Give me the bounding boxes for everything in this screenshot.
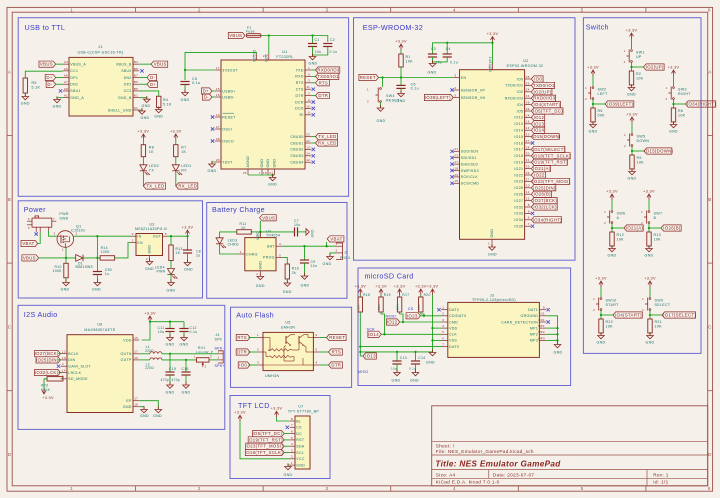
svg-text:IO23(TFT_MOSI): IO23(TFT_MOSI) xyxy=(532,179,570,184)
wire pin to label xyxy=(530,110,532,112)
svg-text:0.1u: 0.1u xyxy=(450,61,458,65)
svg-text:10K: 10K xyxy=(655,325,663,329)
global label IO4(START) xyxy=(531,102,560,108)
IC U7 ST7789 body xyxy=(295,416,310,469)
IC U5 UMH3N body xyxy=(263,332,313,370)
svg-text:USBD+: USBD+ xyxy=(222,89,235,93)
svg-text:+3.3V: +3.3V xyxy=(595,276,607,280)
svg-text:6: 6 xyxy=(708,8,711,13)
svg-text:MAX98357AETE: MAX98357AETE xyxy=(84,328,115,332)
section box TFT LCD xyxy=(230,396,330,479)
wire RTS pin to label xyxy=(311,82,315,84)
pin 17 SHD/SD2 of U2 xyxy=(453,163,459,165)
wire gate node to R10 xyxy=(65,258,67,263)
global label RESET autoflash xyxy=(327,334,347,340)
wire VBUS node to C7 xyxy=(260,231,294,233)
wire R21 to ground xyxy=(649,333,651,336)
svg-text:VCCIO: VCCIO xyxy=(252,49,256,62)
svg-text:GND: GND xyxy=(589,130,598,134)
svg-text:RTS: RTS xyxy=(319,80,329,85)
resistor R2 xyxy=(629,71,633,85)
global label IO19(TFT_RST) xyxy=(248,437,284,443)
wire pin to label xyxy=(530,161,532,163)
global label IO18(TFT_SCLK) xyxy=(245,449,284,455)
wire EN net to C6 xyxy=(400,78,402,86)
base resistor zigzag B inside U5 xyxy=(268,355,292,357)
no-connect on CBUS3 xyxy=(312,154,315,157)
svg-text:+3.3V: +3.3V xyxy=(606,189,618,193)
wire LED3 to CHRG pin xyxy=(220,244,239,254)
svg-text:IO25: IO25 xyxy=(514,186,523,190)
svg-text:microSD Card: microSD Card xyxy=(365,272,414,281)
svg-text:CARD_DETECTION: CARD_DETECTION xyxy=(501,320,538,324)
svg-text:VBUS: VBUS xyxy=(40,62,53,67)
svg-text:34: 34 xyxy=(526,94,530,98)
svg-text:TXD0/IO1: TXD0/IO1 xyxy=(317,74,339,79)
wire TEST to ground xyxy=(212,162,215,164)
svg-text:Switch: Switch xyxy=(586,23,609,32)
pin 2 CD/DAT3 of J3 xyxy=(441,315,448,317)
wire +3.3V to R19 xyxy=(380,295,382,297)
pin 6 IO34 of U2 xyxy=(525,219,531,221)
svg-text:GND: GND xyxy=(410,378,419,382)
svg-text:MP3: MP3 xyxy=(538,336,545,340)
svg-text:USB to TTL: USB to TTL xyxy=(25,23,66,32)
pin 2 DTR of U1 xyxy=(305,95,311,97)
svg-text:SHD/SD2: SHD/SD2 xyxy=(461,162,478,166)
resistor R18 pull-up xyxy=(358,297,362,312)
svg-text:IO4(START): IO4(START) xyxy=(533,102,560,107)
svg-text:GND: GND xyxy=(266,159,270,168)
resistor R9 xyxy=(630,155,634,169)
wire to C8 xyxy=(187,236,189,249)
global label IO17(SELECT) xyxy=(531,146,565,152)
svg-text:7: 7 xyxy=(528,222,530,226)
svg-text:A1: A1 xyxy=(64,94,68,98)
svg-text:2: 2 xyxy=(666,97,668,101)
capacitor C6 xyxy=(396,84,405,86)
svg-text:RX: RX xyxy=(181,168,187,172)
svg-text:CBUS0: CBUS0 xyxy=(290,135,303,139)
pin 22 CBUS1 of U1 xyxy=(305,142,311,144)
svg-text:+3.3V: +3.3V xyxy=(587,65,599,69)
svg-text:C2: C2 xyxy=(330,38,335,42)
resistor R21 xyxy=(648,319,652,333)
svg-text:50K: 50K xyxy=(598,114,606,118)
pin 16 USBD- of U1 xyxy=(215,96,221,98)
svg-text:1: 1 xyxy=(132,238,134,242)
wire GROUND MP pins to ground xyxy=(546,316,557,345)
wire R1 to EN net xyxy=(400,67,402,78)
ground below R10 xyxy=(65,279,67,282)
svg-text:13: 13 xyxy=(526,126,530,130)
svg-text:TFP09-2-128(microSD): TFP09-2-128(microSD) xyxy=(472,298,516,302)
wire pin to label xyxy=(530,155,532,157)
push button SW2 LEFT xyxy=(592,87,594,89)
svg-text:GND: GND xyxy=(140,414,149,418)
svg-text:R17: R17 xyxy=(402,293,409,297)
wire C11 drop xyxy=(169,322,171,328)
wire +3.3V to R1 xyxy=(400,50,402,54)
svg-text:IO5: IO5 xyxy=(517,109,524,113)
svg-text:SBU1: SBU1 xyxy=(70,89,80,93)
svg-text:IO34(RIGHT): IO34(RIGHT) xyxy=(533,217,562,222)
svg-text:3: 3 xyxy=(308,79,310,83)
wire C5 to ground xyxy=(184,85,186,93)
svg-text:CHRG: CHRG xyxy=(228,242,239,246)
svg-text:IO18(TFT_SCLK): IO18(TFT_SCLK) xyxy=(533,153,572,158)
no-connect on RESET pin xyxy=(211,115,214,118)
svg-text:23: 23 xyxy=(306,133,310,137)
svg-text:3: 3 xyxy=(132,232,134,236)
svg-text:6: 6 xyxy=(308,111,310,115)
svg-text:SBU2: SBU2 xyxy=(121,69,131,73)
global label TXD0/IO1 xyxy=(316,73,339,79)
wire L1 to SPK- xyxy=(162,353,218,355)
svg-text:SPK-: SPK- xyxy=(215,347,225,351)
push button SW7 B xyxy=(648,211,650,213)
junction MP2 xyxy=(556,333,558,335)
svg-text:9: 9 xyxy=(528,209,530,213)
global label IO23(TFT_MOSI) xyxy=(246,443,284,449)
svg-text:8: 8 xyxy=(543,306,545,310)
svg-text:IO12: IO12 xyxy=(534,115,545,120)
svg-text:1: 1 xyxy=(336,242,338,246)
wire VSS to ground xyxy=(433,339,442,341)
pin 5 CLK of J3 xyxy=(441,333,448,335)
wire R5 to ground xyxy=(592,122,594,125)
svg-text:GND: GND xyxy=(377,119,386,123)
svg-text:1: 1 xyxy=(257,333,259,337)
ground below R22 xyxy=(600,332,602,335)
wire C11 to ground xyxy=(169,332,171,338)
global label IO4(START) xyxy=(613,312,642,318)
svg-text:IO15(DOWN): IO15(DOWN) xyxy=(644,149,673,154)
wire EP to ground xyxy=(139,401,158,410)
wire pin to label xyxy=(530,104,532,106)
svg-text:+3.3V: +3.3V xyxy=(668,65,680,69)
resistor R13 xyxy=(169,245,173,261)
svg-text:7: 7 xyxy=(53,217,55,221)
svg-text:RESET: RESET xyxy=(329,335,345,340)
pin 3 SCL of U7 xyxy=(290,452,295,454)
svg-text:CTS: CTS xyxy=(296,87,304,91)
ground below R9 xyxy=(631,168,633,171)
global label RTS autoflash left xyxy=(236,334,250,340)
wire PROG to R16 xyxy=(282,257,287,264)
svg-text:CD/DAT3: CD/DAT3 xyxy=(449,314,466,318)
svg-text:DTR: DTR xyxy=(296,94,304,98)
no-connect on CARD_DETECTION xyxy=(547,320,550,323)
pin 3 BAT of U4 xyxy=(276,245,282,247)
svg-text:VBUS: VBUS xyxy=(229,33,242,38)
IC U6 MAX98357AETE body xyxy=(67,335,133,413)
global label IO5(TFT_DC) xyxy=(253,431,285,437)
svg-text:CBUS1: CBUS1 xyxy=(290,141,303,145)
pin 1 CHRG of U4 xyxy=(239,253,245,255)
svg-text:2: 2 xyxy=(256,272,258,276)
wire +3.3V to SW6 xyxy=(611,200,613,210)
svg-text:10u: 10u xyxy=(315,50,322,54)
capacitor C16 xyxy=(181,371,190,373)
svg-text:14: 14 xyxy=(526,113,530,117)
pin 3 CMD of J3 xyxy=(441,321,448,323)
wire junction to label xyxy=(649,227,661,229)
svg-text:R5: R5 xyxy=(32,81,37,85)
svg-text:LEFT: LEFT xyxy=(598,92,609,96)
wire decoupling rail xyxy=(360,351,432,353)
svg-text:5: 5 xyxy=(308,72,310,76)
ground below R5 xyxy=(24,93,26,96)
wire SW7 to resistor R13 xyxy=(648,223,650,232)
wire VBAT to SW8 xyxy=(38,233,41,244)
wire RV1 to SPK+ xyxy=(209,359,218,361)
global label IO39(LEFT) xyxy=(424,94,453,100)
svg-text:2: 2 xyxy=(198,486,201,491)
svg-text:J1: J1 xyxy=(98,45,103,49)
svg-text:R5: R5 xyxy=(598,109,603,113)
+3.3V above R7 xyxy=(175,134,177,140)
svg-text:Power: Power xyxy=(24,205,46,214)
ground below U7 xyxy=(287,463,289,466)
global label D+ at U1 xyxy=(202,88,212,94)
svg-text:MP1: MP1 xyxy=(538,324,545,328)
svg-text:TFT ST7789_BP: TFT ST7789_BP xyxy=(288,410,319,414)
wire to C11 C12 xyxy=(150,321,184,323)
ground below C11 xyxy=(169,334,171,337)
svg-text:C16: C16 xyxy=(182,367,189,371)
pin CD1 CARD_DETECTION of J3 xyxy=(539,321,546,323)
svg-text:10K: 10K xyxy=(606,325,614,329)
svg-text:SW4: SW4 xyxy=(386,94,395,98)
svg-text:10: 10 xyxy=(306,104,310,108)
svg-text:R2: R2 xyxy=(636,72,641,76)
svg-text:IO22: IO22 xyxy=(534,173,545,178)
+3.3V above U6 xyxy=(149,316,151,322)
svg-text:MOSI: MOSI xyxy=(386,314,397,318)
svg-text:IO5(TFT_DC): IO5(TFT_DC) xyxy=(253,431,283,436)
ground below GND_B xyxy=(146,96,148,99)
svg-text:IO4(START): IO4(START) xyxy=(615,313,642,318)
wire +3.3V to VDD3P3 and capacitors xyxy=(492,43,494,64)
svg-text:IO23: IO23 xyxy=(407,313,418,318)
svg-text:10u: 10u xyxy=(158,330,165,334)
no-connect on SHD/SD2 xyxy=(450,162,453,165)
pin A5 CC1 of J1 xyxy=(63,70,69,72)
svg-text:37: 37 xyxy=(526,177,530,181)
ground right of C7 xyxy=(306,229,309,236)
global label IO13 sd xyxy=(363,353,376,359)
global label RTS xyxy=(316,80,330,86)
no-connect on SW8 pin xyxy=(35,232,38,235)
svg-text:MP2: MP2 xyxy=(530,333,538,337)
LED LED2 xyxy=(140,165,147,171)
wire C7 to right ground xyxy=(298,231,307,233)
wire L2 to RV1 xyxy=(162,359,196,361)
svg-text:TX: TX xyxy=(149,168,155,172)
ground below C12 xyxy=(183,334,185,337)
ground below R21 xyxy=(649,332,651,335)
pin 30 IO18 of U2 xyxy=(525,155,531,157)
svg-text:R22: R22 xyxy=(606,320,614,324)
+3.3V above R17 xyxy=(399,289,401,295)
wire OUT to +3.3V rail xyxy=(168,235,188,237)
svg-text:22: 22 xyxy=(306,139,310,143)
svg-text:RXD0/IO3: RXD0/IO3 xyxy=(533,96,556,101)
+3.3V above R1 xyxy=(400,44,402,50)
+3.3V VDD feed xyxy=(432,289,434,295)
LED LED4 PWR xyxy=(167,269,174,275)
svg-text:+3.3V: +3.3V xyxy=(234,411,246,415)
global label IO32(LCK) xyxy=(531,204,557,210)
svg-text:GND: GND xyxy=(184,268,193,272)
junction SW4 node xyxy=(381,76,383,78)
svg-text:4: 4 xyxy=(291,442,293,446)
svg-text:R21: R21 xyxy=(655,320,663,324)
svg-text:IO39(LEFT): IO39(LEFT) xyxy=(425,95,451,100)
pin MP1 MP1 of J3 xyxy=(539,327,546,329)
svg-text:U2: U2 xyxy=(523,59,529,63)
svg-text:+3.3V: +3.3V xyxy=(375,284,387,288)
wire SW3 to resistor R6 xyxy=(673,99,675,108)
global label VBUS left of J1 xyxy=(39,61,56,67)
svg-text:RXD0/IO3: RXD0/IO3 xyxy=(317,68,340,73)
svg-text:1: 1 xyxy=(641,210,643,214)
capacitor C2 xyxy=(323,43,332,45)
svg-text:SCL: SCL xyxy=(296,451,304,455)
svg-text:SW5: SW5 xyxy=(637,135,646,139)
pin 24 IO2 of U2 xyxy=(525,91,531,93)
svg-text:6: 6 xyxy=(708,486,711,491)
global label IO23 sd xyxy=(406,313,420,319)
resistor R22 xyxy=(599,319,603,333)
wire +3.3V to R20 xyxy=(420,295,422,297)
pin G1 GROUND of J3 xyxy=(539,315,546,317)
+3.3V above R20 xyxy=(420,289,422,295)
svg-text:GND: GND xyxy=(428,71,437,75)
svg-text:3: 3 xyxy=(454,73,456,77)
svg-text:GND: GND xyxy=(645,254,654,258)
junction at SW2 output xyxy=(592,103,594,105)
svg-text:35: 35 xyxy=(526,81,530,85)
svg-text:GND: GND xyxy=(53,104,62,108)
pin 37 IO23 of U2 xyxy=(525,180,531,182)
svg-text:SPK: SPK xyxy=(215,338,223,342)
global label VBUS in power xyxy=(22,255,39,261)
svg-text:29: 29 xyxy=(526,107,530,111)
junction MP1 xyxy=(556,327,558,329)
wire +3.3V to R7 xyxy=(175,140,177,145)
svg-text:A: A xyxy=(617,216,620,220)
svg-text:A: A xyxy=(708,69,712,74)
wire D- label to DN1 xyxy=(56,83,63,85)
+3.3V above R19 xyxy=(380,289,382,295)
svg-text:20: 20 xyxy=(454,173,458,177)
wire Q1 gate down xyxy=(65,247,67,258)
pin 6 VSS of J3 xyxy=(441,339,448,341)
wire C14 to ground xyxy=(415,364,417,373)
wire R13 to LED4 xyxy=(170,261,172,269)
resistor R4 xyxy=(157,96,161,107)
svg-text:R18: R18 xyxy=(363,293,370,297)
svg-text:3: 3 xyxy=(442,318,444,322)
svg-text:GND: GND xyxy=(92,288,101,292)
svg-text:11: 11 xyxy=(306,85,310,89)
svg-text:IO14: IO14 xyxy=(514,128,523,132)
wire pin to label xyxy=(530,200,532,202)
svg-text:GND: GND xyxy=(61,288,70,292)
+3.3V to BL of U7 xyxy=(276,411,278,417)
global label IO26(B) xyxy=(661,225,681,231)
pin 17 EP of U6 xyxy=(133,400,139,402)
global label IO15(DOWN) xyxy=(644,148,672,154)
no-connect on SCK/CLK xyxy=(450,175,453,178)
resistor R19 pull-up xyxy=(379,297,383,312)
svg-text:TXD: TXD xyxy=(296,68,304,72)
svg-text:23: 23 xyxy=(526,133,530,137)
svg-text:SW9: SW9 xyxy=(655,299,664,303)
wire R12 to ground xyxy=(611,246,613,249)
svg-text:DN2: DN2 xyxy=(124,76,132,80)
svg-text:IO17(SELECT): IO17(SELECT) xyxy=(533,147,566,152)
svg-text:2: 2 xyxy=(367,100,369,104)
svg-text:IN: IN xyxy=(137,234,141,238)
svg-text:TX_LED: TX_LED xyxy=(318,134,336,139)
svg-text:EN: EN xyxy=(461,76,467,80)
svg-text:MP2: MP2 xyxy=(538,330,545,334)
svg-text:VCC: VCC xyxy=(296,457,305,461)
wire SW10 to resistor R22 xyxy=(600,310,602,319)
svg-text:GND: GND xyxy=(627,93,636,97)
global label IO23(TFT_MOSI) xyxy=(531,178,569,184)
svg-text:SDA: SDA xyxy=(296,444,305,448)
wire C8 to ground xyxy=(187,253,189,263)
svg-text:5: 5 xyxy=(316,348,318,352)
svg-text:GND: GND xyxy=(268,183,277,187)
+3.3V above R18 xyxy=(359,289,361,295)
push button SW1 UP xyxy=(631,50,633,52)
svg-text:I2S Audio: I2S Audio xyxy=(24,310,58,319)
svg-text:5: 5 xyxy=(279,253,281,257)
pin 2 VCC of U7 xyxy=(290,458,295,460)
junction rail at R18 column xyxy=(359,351,361,353)
svg-text:+3.3V: +3.3V xyxy=(626,112,638,116)
svg-text:0.1u: 0.1u xyxy=(411,86,419,90)
svg-text:2: 2 xyxy=(442,312,444,316)
wire SW2 to resistor R5 xyxy=(592,99,594,108)
global label IO32(LCK) xyxy=(35,369,61,375)
svg-text:5: 5 xyxy=(442,330,444,334)
svg-text:+3.3V: +3.3V xyxy=(487,32,499,36)
no-connect on SDO/SD0 xyxy=(450,150,453,153)
svg-text:GND: GND xyxy=(554,351,563,355)
svg-text:10K: 10K xyxy=(617,238,625,242)
svg-text:GND: GND xyxy=(148,245,152,254)
global label IO27(BCK) xyxy=(531,198,557,204)
wire U1 ground pins xyxy=(248,174,275,176)
svg-text:10u: 10u xyxy=(391,367,397,371)
svg-text:DIN: DIN xyxy=(68,358,75,362)
ground below C3 C4 xyxy=(432,60,434,63)
wire CC2 to R4 xyxy=(139,91,158,96)
svg-text:TXD0/IO1: TXD0/IO1 xyxy=(533,83,555,88)
wire node down to VBUS diode line xyxy=(96,236,98,258)
svg-text:28: 28 xyxy=(216,137,220,141)
junction MP3 xyxy=(556,339,558,341)
pin 13 DIN of U6 xyxy=(61,359,67,361)
svg-text:GND: GND xyxy=(166,343,175,347)
no-connect on SWP/SD3 xyxy=(450,169,453,172)
